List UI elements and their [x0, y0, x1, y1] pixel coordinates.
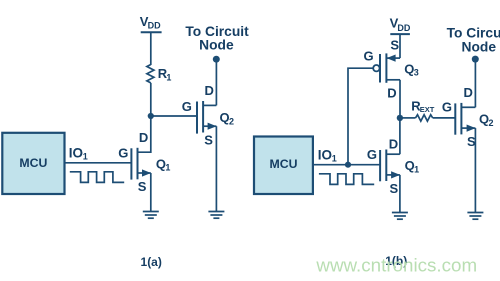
pin S label Q1 (circuit b): [390, 181, 399, 196]
svg-text:DD: DD: [148, 21, 161, 31]
To Circuit Node label (circuit b): [447, 25, 500, 54]
svg-text:IO: IO: [69, 146, 83, 161]
svg-text:D: D: [387, 86, 396, 101]
svg-text:S: S: [204, 132, 213, 147]
pulse waveform (circuit a): [70, 172, 124, 183]
node junction dot on IO1 wire (circuit b): [345, 162, 351, 168]
pin D label Q2 (circuit b): [464, 85, 473, 100]
svg-text:1: 1: [83, 152, 88, 162]
svg-text:www.cntronics.com: www.cntronics.com: [315, 254, 477, 275]
svg-text:S: S: [390, 37, 399, 52]
ground (Q2 circuit a): [208, 212, 224, 219]
wire Q1 source to ground (circuit b): [399, 175, 401, 213]
pin S label Q2 (circuit b): [467, 134, 476, 149]
svg-text:1(a): 1(a): [141, 255, 162, 269]
wire R1 to node A: [150, 83, 152, 116]
svg-text:Node: Node: [199, 37, 234, 52]
Q1 reference label (circuit a): [156, 156, 171, 172]
svg-text:EXT: EXT: [420, 105, 435, 114]
pulse waveform (circuit b): [319, 174, 374, 185]
svg-text:D: D: [389, 137, 398, 152]
svg-text:G: G: [442, 100, 452, 115]
MCU box U1 (circuit a): [2, 133, 64, 194]
node To Circuit Node dot (circuit b): [472, 56, 479, 63]
svg-text:MCU: MCU: [19, 156, 47, 170]
To Circuit Node label (circuit a): [185, 24, 249, 52]
resistor REXT: [416, 115, 433, 121]
MCU label (circuit b): [269, 157, 297, 171]
svg-text:G: G: [182, 99, 192, 114]
svg-text:2: 2: [489, 118, 494, 128]
svg-text:S: S: [138, 179, 147, 194]
caption 1(a): [141, 255, 162, 269]
Q2 reference label (circuit b): [479, 111, 494, 127]
VDD power bar (circuit a): [141, 31, 162, 33]
pin D label Q3 (circuit b): [387, 86, 396, 101]
svg-text:D: D: [139, 130, 148, 145]
node B junction dot (circuit b): [397, 115, 403, 121]
pin D label Q2 (circuit a): [205, 83, 214, 98]
pin G label Q1 (circuit b): [367, 147, 377, 162]
ground (Q2 circuit b): [467, 213, 483, 220]
transistor Q3 (circuit b) PMOS: [373, 53, 400, 82]
wire junction up to Q3 gate (circuit b): [348, 68, 373, 165]
svg-text:IO: IO: [318, 148, 332, 163]
svg-text:To Circuit: To Circuit: [447, 25, 500, 40]
MCU box U2 (circuit b): [254, 137, 313, 195]
ground (Q1 circuit a): [143, 212, 159, 219]
pin D label Q1 (circuit a): [139, 130, 148, 145]
transistor Q2 (circuit a) NMOS: [197, 101, 217, 134]
wire Q3 drain down to node B (circuit b): [399, 80, 401, 118]
VDD label (circuit b): [390, 16, 411, 33]
svg-text:1: 1: [166, 73, 171, 83]
svg-text:1: 1: [414, 165, 419, 175]
wire Q2 drain to circuit node (circuit a): [215, 59, 217, 105]
wire node B to resistor REXT: [400, 117, 416, 119]
wire Q2 drain to circuit node (circuit b): [474, 59, 476, 107]
VDD power bar (circuit b): [390, 33, 410, 35]
wire MCU IO1 to Q1 gate (circuit b): [313, 164, 380, 166]
wire node A to Q2 gate (circuit a): [151, 115, 197, 117]
node A junction dot (circuit a): [148, 113, 154, 119]
svg-text:3: 3: [414, 68, 419, 78]
node IO1 label (circuit a): [69, 146, 88, 162]
wire Q1 source to ground (circuit a): [150, 173, 152, 212]
svg-text:D: D: [464, 85, 473, 100]
svg-text:G: G: [364, 48, 374, 63]
wire Q2 source to ground (circuit b): [474, 128, 476, 212]
svg-text:1: 1: [165, 163, 170, 173]
wire node A down to Q1 drain (circuit a): [138, 116, 151, 152]
pin G label Q1 (circuit a): [118, 146, 128, 161]
svg-text:2: 2: [229, 116, 234, 126]
svg-text:DD: DD: [397, 23, 410, 33]
node To Circuit Node dot (circuit a): [213, 56, 220, 63]
wire VDD to R1: [150, 32, 152, 65]
node IO1 label (circuit b): [318, 148, 337, 164]
Q1 reference label (circuit b): [405, 158, 420, 174]
ground (Q1 circuit b): [392, 213, 408, 220]
svg-text:S: S: [390, 181, 399, 196]
resistor R1: [147, 65, 154, 83]
pin S label Q2 (circuit a): [204, 132, 213, 147]
wire REXT to Q2 gate (circuit b): [433, 117, 456, 119]
wire Q1 drain up to node B (circuit b): [399, 118, 401, 154]
pin G label Q2 (circuit a): [182, 99, 192, 114]
MCU label (circuit a): [19, 156, 47, 170]
watermark www.cntronics.com: [315, 254, 477, 275]
svg-text:D: D: [205, 83, 214, 98]
pin G label Q2 (circuit b): [442, 100, 452, 115]
pin G label Q3 (circuit b): [364, 48, 374, 63]
wire MCU IO1 to Q1 gate (circuit a): [65, 162, 132, 164]
R1 value label: [158, 66, 172, 83]
svg-text:Node: Node: [462, 39, 497, 54]
pin S label Q3 (circuit b): [390, 37, 399, 52]
transistor Q1 (circuit a) NMOS: [131, 148, 151, 180]
wire Q3 source to VDD (circuit b): [399, 34, 401, 58]
Q2 reference label (circuit a): [220, 110, 235, 126]
svg-text:G: G: [118, 146, 128, 161]
svg-text:1: 1: [332, 154, 337, 164]
wire Q2 source to ground (circuit a): [215, 126, 217, 211]
svg-text:MCU: MCU: [269, 157, 297, 171]
transistor Q2 (circuit b) NMOS: [455, 103, 475, 135]
svg-text:G: G: [367, 147, 377, 162]
transistor Q1 (circuit b) NMOS: [380, 150, 400, 182]
REXT value label: [411, 99, 434, 114]
pin S label Q1 (circuit a): [138, 179, 147, 194]
VDD label (circuit a): [140, 14, 161, 31]
pin D label Q1 (circuit b): [389, 137, 398, 152]
Q3 reference label (circuit b): [404, 61, 419, 77]
caption 1(b): [385, 254, 407, 268]
